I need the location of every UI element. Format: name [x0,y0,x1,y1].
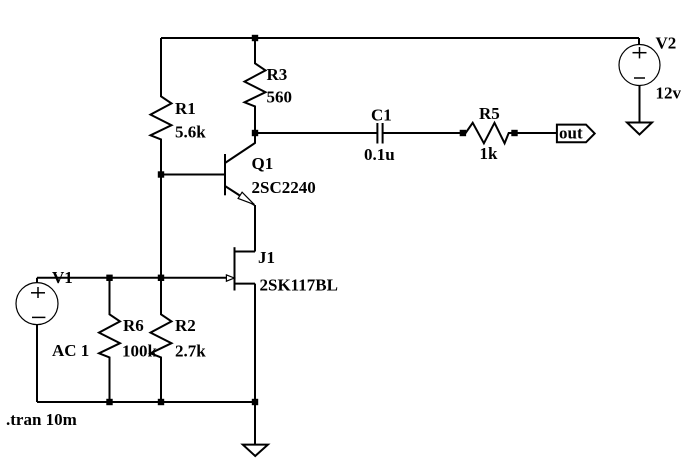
svg-text:V1: V1 [52,268,73,287]
svg-text:0.1u: 0.1u [364,145,395,164]
svg-text:J1: J1 [258,248,275,267]
svg-text:R6: R6 [123,316,144,335]
svg-text:2.7k: 2.7k [175,342,206,361]
svg-text:1k: 1k [480,144,499,163]
svg-text:R1: R1 [175,99,196,118]
svg-text:R2: R2 [175,316,196,335]
svg-text:R3: R3 [267,65,288,84]
svg-text:Q1: Q1 [252,154,274,173]
svg-text:.tran 10m: .tran 10m [6,410,77,429]
svg-text:V2: V2 [656,34,677,53]
svg-text:C1: C1 [371,106,392,125]
svg-text:R5: R5 [479,104,500,123]
svg-text:2SC2240: 2SC2240 [252,178,316,197]
svg-text:560: 560 [267,88,293,107]
svg-text:12v: 12v [656,84,682,103]
svg-text:out: out [559,124,583,143]
svg-text:100k: 100k [122,342,158,361]
svg-text:5.6k: 5.6k [175,123,206,142]
svg-text:AC 1: AC 1 [52,341,89,360]
svg-text:2SK117BL: 2SK117BL [260,276,338,295]
